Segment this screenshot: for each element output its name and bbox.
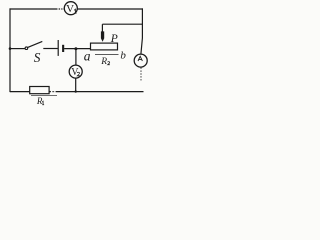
- battery cell: [58, 40, 64, 56]
- wire right rail from top corner to ammeter: [141, 8, 143, 54]
- svg-text:R: R: [36, 96, 43, 106]
- node junction on left rail: [9, 47, 12, 50]
- wire voltmeter V2 to bottom rail: [75, 78, 77, 92]
- wire left rail: [9, 8, 11, 92]
- wire switch contact to battery: [43, 48, 58, 50]
- node junction battery to V2 tap: [74, 47, 77, 50]
- switch S: [25, 41, 42, 65]
- wire slider P to right rail: [102, 23, 142, 25]
- wire junction down to voltmeter V2: [75, 49, 77, 66]
- svg-text:b: b: [120, 50, 126, 62]
- svg-text:V: V: [66, 3, 74, 15]
- label R2: [100, 57, 110, 67]
- wire ammeter to bottom rail (faint dotted): [140, 68, 142, 82]
- resistor R1: [30, 87, 57, 96]
- voltmeter V1: [64, 2, 77, 15]
- wire top rail right of V1: [77, 8, 143, 10]
- svg-text:P: P: [110, 33, 118, 45]
- label R1: [36, 96, 44, 106]
- wire top rail left of V1: [10, 8, 58, 10]
- wire bottom rail left of R1: [10, 91, 30, 93]
- rheostat R2 body: [91, 43, 119, 54]
- wire left rail to switch hinge: [10, 48, 25, 50]
- svg-text:a: a: [84, 49, 91, 64]
- voltmeter V2: [69, 65, 82, 78]
- svg-text:S: S: [34, 50, 41, 65]
- ammeter A: [134, 54, 147, 67]
- wire battery to rheostat terminal a: [64, 48, 90, 50]
- svg-text:R: R: [100, 57, 107, 67]
- wire bottom rail right of R1: [49, 91, 51, 93]
- node junction V2 bottom on bottom rail: [75, 90, 77, 92]
- slider P of rheostat: [101, 24, 118, 45]
